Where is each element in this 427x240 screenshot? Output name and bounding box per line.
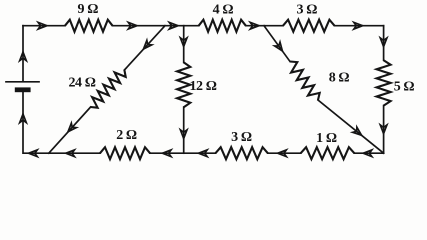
wire top between 4Ω and 3Ω: [246, 25, 283, 27]
current arrow bottom wire right of 12Ω node: [199, 150, 208, 157]
current arrow on top wire after corner: [38, 22, 47, 29]
resistor R9 24Ω zigzag (diagonal): [91, 70, 126, 108]
resistor R4 2Ω zigzag: [100, 147, 150, 159]
resistor R8 5Ω zigzag: [377, 60, 391, 105]
current arrow on top wire between node A and 12Ω: [169, 22, 178, 29]
current arrow on 24Ω diagonal (upper): [141, 40, 152, 51]
wire right rail top lead: [383, 26, 385, 61]
current arrow bottom wire after node D: [66, 150, 75, 157]
wire right rail bottom lead: [383, 106, 385, 154]
current arrow down into 5Ω: [380, 38, 387, 47]
svg-text:5 Ω: 5 Ω: [394, 80, 415, 95]
wire left rail below battery: [23, 92, 100, 153]
current arrow up on left rail (below battery): [20, 114, 27, 123]
wire 8Ω diagonal upper lead: [264, 26, 290, 62]
current arrow down out of 5Ω: [380, 125, 387, 134]
svg-text:4 Ω: 4 Ω: [213, 3, 234, 18]
wire 24Ω diagonal lower lead: [49, 107, 91, 153]
current arrow bottom wire after 3Ω: [278, 150, 287, 157]
wire left rail above battery: [22, 26, 24, 82]
svg-text:9 Ω: 9 Ω: [78, 2, 99, 17]
current arrow on 24Ω diagonal (lower): [66, 123, 77, 134]
current arrow bottom wire after 1Ω: [363, 150, 372, 157]
resistor R2 4Ω zigzag: [199, 20, 246, 32]
wire 24Ω diagonal upper lead: [124, 26, 165, 70]
circuit schematic: resistor network with battery: [0, 0, 427, 172]
wire top between 9Ω and 4Ω: [113, 25, 199, 27]
wire top-left segment: [23, 25, 65, 27]
wire 12Ω rail top lead: [183, 26, 185, 63]
current arrow on top wire after 4Ω: [250, 22, 259, 29]
current arrow on 8Ω diagonal (lower): [353, 127, 364, 138]
resistor R10 8Ω zigzag (diagonal): [290, 62, 320, 101]
wire bottom between 3Ω and 1Ω: [268, 152, 301, 154]
wire 8Ω diagonal lower lead: [318, 100, 384, 153]
svg-text:2 Ω: 2 Ω: [116, 128, 137, 143]
svg-text:1 Ω: 1 Ω: [316, 131, 337, 146]
current arrow on top wire after 3Ω: [354, 22, 363, 29]
wire bottom between 2Ω and 3Ω: [150, 152, 216, 154]
svg-text:3 Ω: 3 Ω: [231, 130, 252, 145]
current arrow bottom wire near battery corner: [29, 150, 38, 157]
current arrow up on left rail (top): [20, 52, 27, 61]
current arrow on top wire after 9Ω: [128, 22, 137, 29]
resistor R7 12Ω zigzag: [177, 62, 190, 107]
current arrow down into 12Ω: [180, 38, 187, 47]
svg-text:8 Ω: 8 Ω: [329, 71, 350, 86]
svg-text:3 Ω: 3 Ω: [297, 3, 318, 18]
svg-text:12 Ω: 12 Ω: [189, 79, 216, 94]
resistor R3 3Ω zigzag (top): [283, 20, 335, 32]
wire bottom-right segment: [354, 152, 383, 154]
wire 12Ω rail bottom lead: [183, 107, 185, 153]
current arrow bottom wire left of 12Ω node: [162, 150, 171, 157]
current arrow on 8Ω diagonal (upper): [275, 42, 285, 53]
resistor R5 3Ω zigzag (bottom): [216, 147, 268, 159]
battery cell: [6, 81, 39, 83]
wire top-right segment: [335, 25, 384, 27]
resistor R1 9Ω zigzag: [65, 20, 113, 32]
current arrow down out of 12Ω: [180, 130, 187, 139]
resistor R6 1Ω zigzag: [301, 147, 355, 159]
svg-text:24 Ω: 24 Ω: [68, 75, 95, 90]
